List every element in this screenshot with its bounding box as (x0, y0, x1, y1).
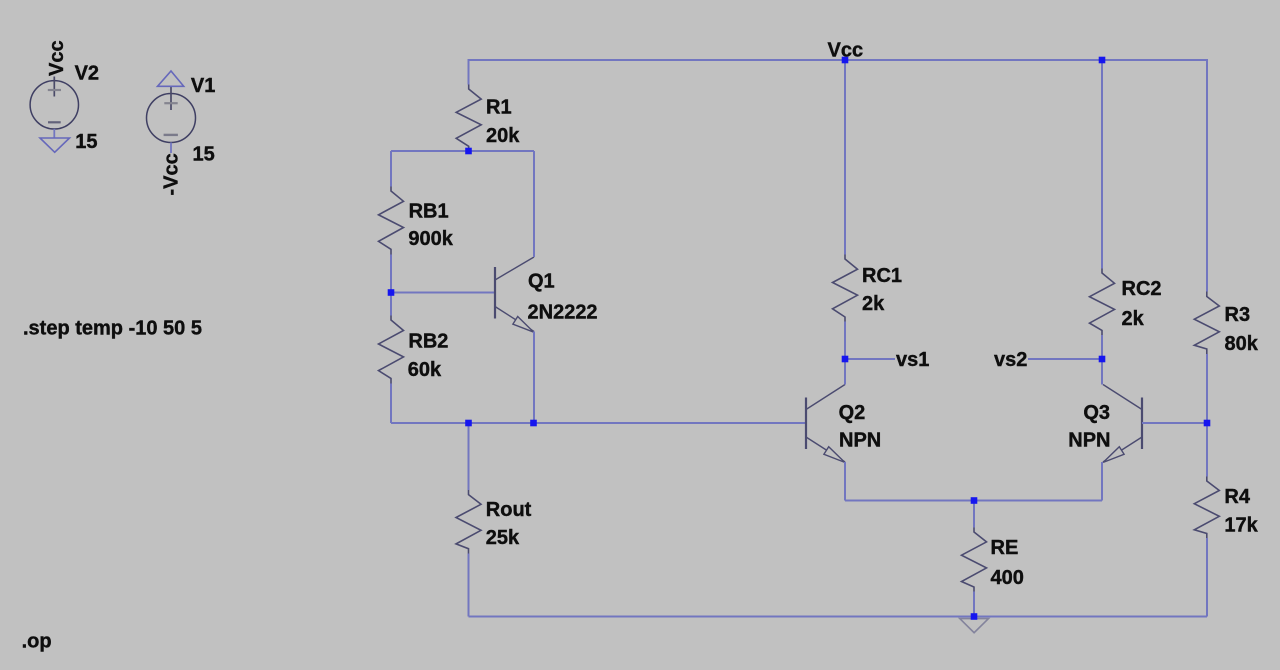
svg-text:NPN: NPN (839, 429, 881, 451)
svg-text:R4: R4 (1224, 486, 1250, 508)
wire Q1 collector (533, 151, 535, 257)
svg-text:NPN: NPN (1068, 429, 1110, 451)
svg-text:25k: 25k (486, 527, 520, 549)
wire Q3 emitter (1101, 462, 1103, 501)
svg-text:17k: 17k (1224, 515, 1258, 537)
resistor Rout (456, 490, 481, 554)
svg-text:15: 15 (75, 131, 97, 153)
svg-text:60k: 60k (408, 359, 442, 381)
transistor Q3 (mirrored) (1103, 385, 1142, 463)
wire RB2 top (390, 293, 392, 316)
wire RB1 bottom (390, 255, 392, 293)
wire Q3 base (1142, 422, 1207, 424)
node vs2 (1099, 356, 1106, 363)
wire Q2 collector (844, 359, 846, 385)
node under R1 (465, 148, 472, 155)
power flag Vcc at V1 (up triangle) (158, 71, 184, 86)
node top rail RC1 (842, 57, 849, 64)
voltage source V2 (30, 77, 78, 139)
wire vs1 (845, 358, 895, 360)
svg-text:Rout: Rout (486, 499, 532, 521)
wire R3 bottom (1206, 354, 1208, 423)
ground symbol V2 (40, 138, 70, 152)
svg-text:80k: 80k (1225, 333, 1259, 355)
svg-text:V2: V2 (75, 63, 99, 85)
wire RB1 top (390, 151, 392, 187)
resistor R4 (1194, 477, 1219, 539)
svg-text:RE: RE (991, 537, 1019, 559)
node Q1 emitter junction (530, 420, 537, 427)
resistor RC1 (833, 255, 858, 322)
wire RC2 top (1101, 60, 1103, 269)
node RE bottom (971, 613, 978, 620)
svg-text:Vcc: Vcc (828, 40, 864, 62)
svg-text:2k: 2k (862, 293, 885, 315)
resistor RC2 (1090, 269, 1115, 336)
wire vs2 (1028, 358, 1102, 360)
wire R1 node row (391, 150, 534, 152)
wire top Vcc rail (469, 60, 1208, 292)
wire Rout top (468, 423, 470, 490)
svg-text:400: 400 (991, 567, 1024, 589)
svg-text:Vcc: Vcc (46, 40, 68, 76)
wire Q2 emitter (844, 462, 846, 501)
svg-text:15: 15 (193, 143, 215, 165)
svg-text:2N2222: 2N2222 (528, 302, 598, 324)
wire Rout bottom (468, 554, 470, 617)
node Q1 base (388, 289, 395, 296)
svg-text:.step temp -10 50 5: .step temp -10 50 5 (23, 317, 202, 339)
svg-text:900k: 900k (408, 228, 453, 250)
resistor R1 (456, 85, 481, 152)
svg-text:RC1: RC1 (862, 265, 902, 287)
svg-text:vs2: vs2 (994, 349, 1027, 371)
svg-text:.op: .op (22, 631, 52, 653)
wire RE bottom (973, 592, 975, 617)
wire RC1 top (844, 60, 846, 255)
svg-text:vs1: vs1 (896, 349, 929, 371)
wire R4 top (1206, 423, 1208, 477)
svg-text:RC2: RC2 (1122, 278, 1162, 300)
resistor RB2 (379, 316, 404, 384)
wire RC1 bottom (844, 322, 846, 360)
resistor R3 (1194, 292, 1219, 355)
ground symbol RE (960, 619, 989, 633)
wire Q1 base (391, 292, 495, 294)
transistor Q1 (495, 257, 534, 332)
svg-text:Q3: Q3 (1083, 402, 1110, 424)
wire RC2 bottom (1101, 335, 1103, 359)
wire emitter rail (845, 500, 1102, 502)
node vs1 (842, 356, 849, 363)
svg-text:2k: 2k (1122, 308, 1145, 330)
svg-text:R3: R3 (1225, 304, 1251, 326)
svg-text:RB2: RB2 (408, 330, 448, 352)
wire lower rail left to Q2 base (391, 422, 806, 424)
transistor Q2 (806, 385, 845, 463)
node R3 R4 junction (1204, 420, 1211, 427)
wire RE top (973, 501, 975, 528)
svg-text:Q2: Q2 (839, 402, 866, 424)
node Rout top (465, 420, 472, 427)
svg-text:-Vcc: -Vcc (161, 153, 183, 195)
svg-text:20k: 20k (486, 125, 520, 147)
node top rail RC2 (1099, 57, 1106, 64)
wire R4 bottom (1206, 538, 1208, 617)
wire RB2 bottom (390, 384, 392, 424)
svg-text:R1: R1 (486, 97, 512, 119)
voltage source V1 (147, 87, 196, 153)
wire Q1 emitter (533, 332, 535, 424)
svg-text:RB1: RB1 (409, 200, 449, 222)
svg-text:Q1: Q1 (528, 271, 555, 293)
resistor RE (962, 528, 987, 592)
svg-text:V1: V1 (191, 75, 215, 97)
wire ground rail (469, 616, 1208, 618)
node RE top (971, 497, 978, 504)
resistor RB1 (379, 187, 404, 255)
wire Q3 collector (1101, 359, 1103, 385)
